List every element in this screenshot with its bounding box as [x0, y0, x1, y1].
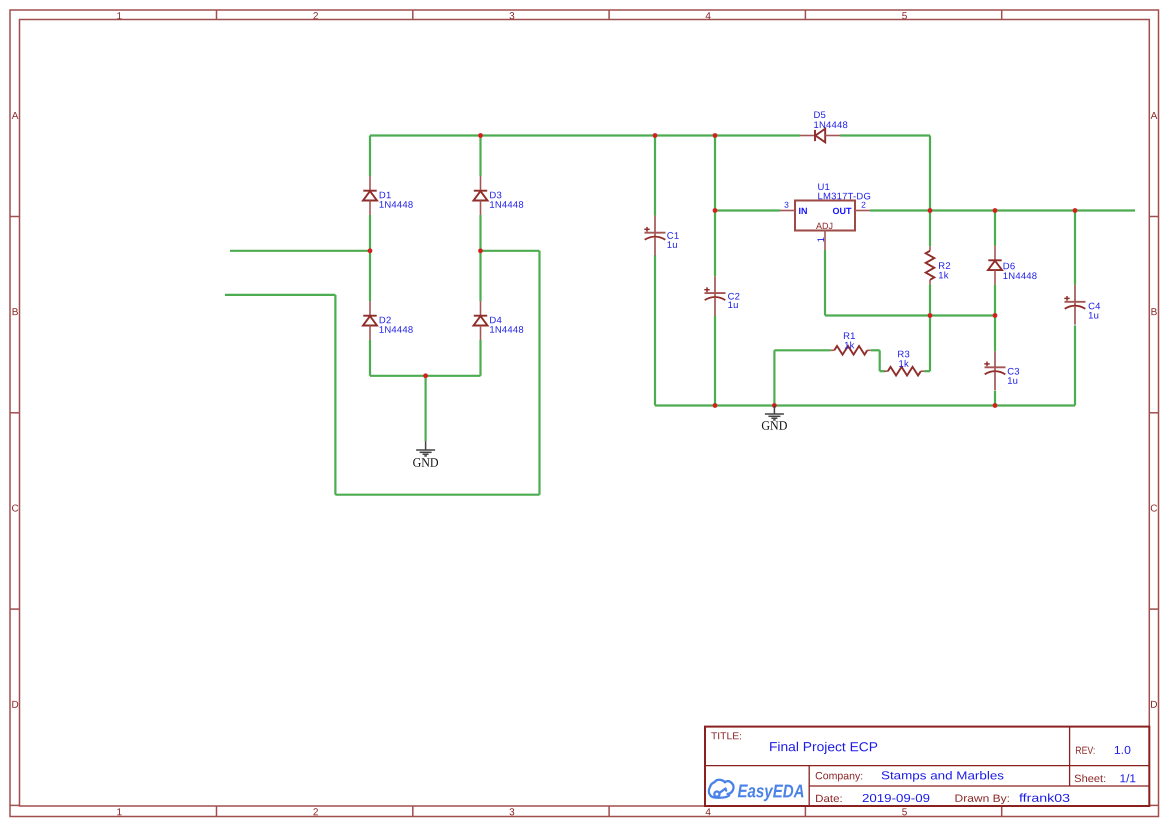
capacitor C4 [1064, 285, 1085, 325]
junction bridge gnd [423, 373, 428, 378]
svg-text:Drawn By:: Drawn By: [954, 793, 1010, 805]
svg-text:1u: 1u [1007, 376, 1018, 387]
diode D3 [474, 176, 488, 215]
svg-text:EasyEDA: EasyEDA [737, 780, 804, 801]
svg-text:1/1: 1/1 [1119, 773, 1136, 785]
junction ADJ/D6 [993, 313, 998, 318]
pin 2 (OUT) of U1 [855, 210, 870, 212]
svg-text:1.0: 1.0 [1114, 745, 1131, 757]
svg-text:1N4448: 1N4448 [489, 325, 523, 336]
capacitor C2 [704, 276, 725, 316]
wire D3 top [479, 136, 481, 177]
svg-text:Final Project ECP: Final Project ECP [769, 739, 878, 754]
ground GND2 symbol [765, 406, 784, 420]
wire R3 right [924, 370, 930, 372]
junction OUT/R2 [928, 208, 933, 213]
svg-text:ffrank03: ffrank03 [1019, 793, 1070, 805]
plus sign (C3) [984, 363, 989, 365]
wire D4 bottom [479, 340, 481, 376]
svg-text:1: 1 [117, 11, 123, 22]
svg-text:REV:: REV: [1075, 745, 1095, 757]
diode D4 [474, 301, 488, 340]
svg-text:1N4448: 1N4448 [379, 200, 413, 211]
wire D3-D4 mid [479, 215, 481, 301]
wire AC input 2 horizontal [225, 294, 335, 296]
diode D6 [988, 246, 1002, 285]
wire C2 bottom [714, 316, 716, 406]
diode D2 [363, 301, 377, 340]
svg-text:D: D [1150, 700, 1157, 711]
wire R2-R3 link [929, 316, 931, 372]
wire loop down [334, 295, 336, 495]
wire R1-R3 link a [871, 349, 880, 351]
wire OUT bus [870, 209, 1135, 211]
junction top/D3 [478, 133, 483, 138]
junction gnd/R1 [772, 403, 777, 408]
svg-text:5: 5 [902, 807, 908, 818]
ground GND1 symbol [416, 441, 435, 456]
wire C3 bottom [994, 391, 996, 406]
wire R1-R3 link c [880, 370, 886, 372]
wire loop to bridge [481, 250, 540, 252]
wire D6 top [994, 211, 996, 246]
svg-text:OUT: OUT [832, 206, 852, 216]
svg-text:A: A [1151, 111, 1158, 122]
svg-text:2019-09-09: 2019-09-09 [862, 793, 930, 805]
wire R1-R3 link b [879, 350, 881, 371]
diode D1 [363, 176, 377, 215]
title block [705, 727, 1149, 806]
svg-text:3: 3 [784, 200, 789, 210]
svg-text:1u: 1u [1088, 311, 1099, 322]
wire C4 top [1074, 211, 1076, 285]
svg-text:1N4448: 1N4448 [813, 120, 847, 131]
svg-text:LM317T-DG: LM317T-DG [817, 191, 871, 202]
junction bridge in2 [478, 248, 483, 253]
resistor R3 [884, 370, 888, 372]
svg-text:4: 4 [705, 11, 711, 22]
resistor R2 [929, 246, 931, 251]
resistor R1 [831, 349, 835, 351]
svg-text:3: 3 [509, 11, 515, 22]
junction gnd/C2 [713, 403, 718, 408]
wire R1 gnd riser [773, 350, 775, 405]
wire C2 top [714, 136, 716, 277]
wire C4 bottom [1074, 325, 1076, 405]
svg-text:B: B [1151, 307, 1158, 318]
svg-text:5: 5 [902, 11, 908, 22]
junction OUT/D6 [993, 208, 998, 213]
svg-text:1: 1 [117, 807, 123, 818]
svg-text:GND: GND [413, 455, 439, 470]
wire top bus right (after D5) [840, 134, 930, 136]
svg-text:1k: 1k [844, 340, 854, 351]
wire C3 top [994, 316, 996, 352]
svg-text:ADJ: ADJ [816, 221, 833, 231]
svg-text:1: 1 [816, 237, 827, 242]
wire AC input 1 [230, 250, 370, 252]
svg-text:1k: 1k [938, 270, 948, 281]
svg-text:1u: 1u [728, 300, 739, 311]
wire bridge GND stem [425, 376, 427, 441]
junction OUT/C4 [1073, 208, 1078, 213]
diode D5 [800, 129, 840, 143]
wire loop bottom [335, 494, 539, 496]
junction C2/IN [713, 208, 718, 213]
svg-text:1N4448: 1N4448 [489, 200, 523, 211]
svg-text:B: B [12, 307, 19, 318]
svg-text:TITLE:: TITLE: [711, 731, 742, 742]
svg-text:3: 3 [509, 807, 515, 818]
junction ADJ/R2 [928, 313, 933, 318]
wire D1-D2 mid [369, 215, 371, 301]
wire R1 left [774, 349, 830, 351]
svg-text:1u: 1u [667, 240, 678, 251]
svg-text:A: A [12, 111, 19, 122]
wire ADJ horizontal [825, 314, 995, 316]
svg-text:C: C [1150, 503, 1157, 514]
svg-text:GND: GND [761, 418, 787, 433]
EasyEDA logo cloud [709, 780, 734, 798]
wire R2 bottom [929, 284, 931, 315]
svg-text:D: D [11, 700, 18, 711]
wire top bus drop to IN node [929, 136, 931, 211]
wire D2 bottom [369, 340, 371, 376]
svg-text:1k: 1k [898, 359, 908, 370]
capacitor C3 [984, 351, 1005, 390]
plus sign (C4) [1064, 297, 1069, 299]
svg-text:C: C [11, 503, 18, 514]
junction top/C2 [713, 133, 718, 138]
wire C1 top [654, 136, 656, 216]
wire R2 top [929, 211, 931, 247]
svg-text:2: 2 [313, 807, 319, 818]
wire C1 bottom [654, 255, 656, 406]
plus sign (C1) [644, 228, 649, 230]
svg-text:1N4448: 1N4448 [1003, 271, 1037, 282]
junction top/C1 [653, 133, 658, 138]
wire D6 bottom [994, 285, 996, 316]
svg-text:2: 2 [313, 11, 319, 22]
plus sign (C2) [704, 289, 709, 291]
junction gnd/C3 [993, 403, 998, 408]
svg-text:Company:: Company: [815, 770, 863, 782]
svg-text:1N4448: 1N4448 [379, 325, 413, 336]
pin 1 (ADJ) of U1 [824, 231, 826, 251]
wire D1 top [369, 136, 371, 177]
wire ADJ down [824, 250, 826, 316]
svg-text:Date:: Date: [815, 793, 843, 805]
pin 3 (IN) of U1 [780, 210, 795, 212]
wire IN wire [715, 209, 780, 211]
capacitor C1 [644, 216, 665, 256]
wire top bus left [370, 134, 800, 136]
op-amp U1 LM317T-DG body [795, 201, 855, 231]
wire bridge bottom [370, 375, 481, 377]
svg-text:4: 4 [705, 807, 711, 818]
svg-text:Sheet:: Sheet: [1074, 773, 1106, 785]
wire ground bus [655, 404, 1075, 406]
svg-text:IN: IN [798, 206, 807, 216]
junction bridge in1 [368, 248, 373, 253]
svg-text:Stamps and Marbles: Stamps and Marbles [881, 770, 1004, 782]
wire loop up [538, 251, 540, 495]
